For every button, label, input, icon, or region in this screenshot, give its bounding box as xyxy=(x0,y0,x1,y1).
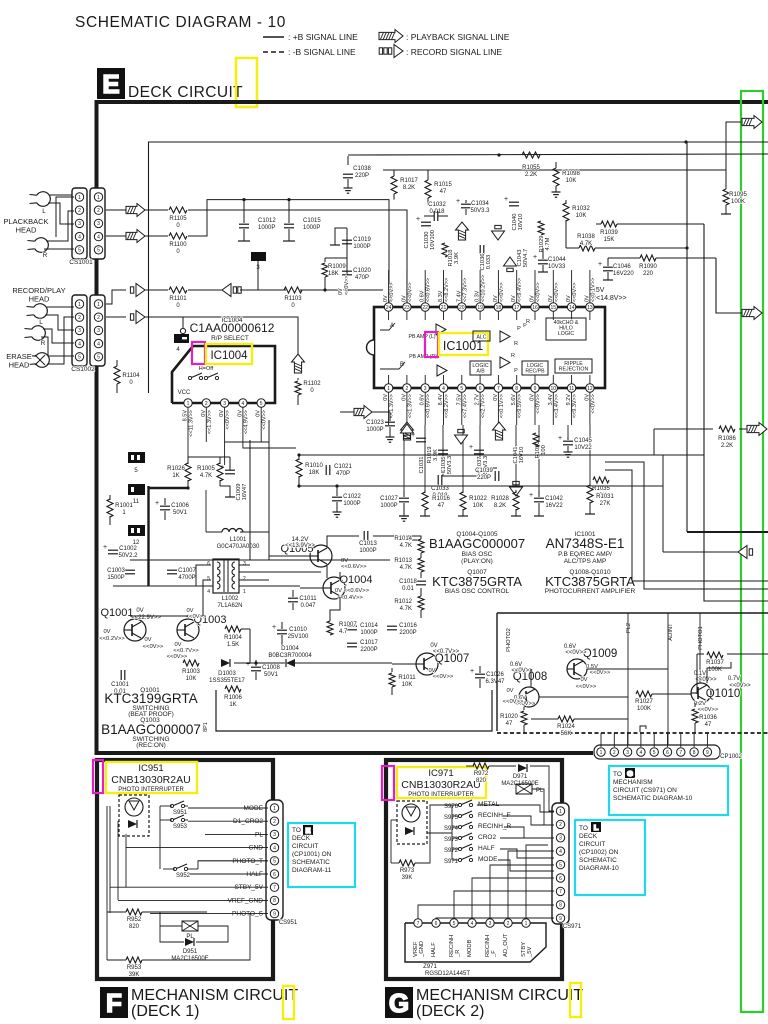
svg-text:3: 3 xyxy=(243,561,246,567)
svg-text:3: 3 xyxy=(559,836,562,842)
resistor R1024 xyxy=(558,716,574,722)
svg-text:<<0V>>: <<0V>> xyxy=(433,674,454,680)
svg-text:C1046: C1046 xyxy=(613,264,631,270)
IC1001 pin stubs top xyxy=(388,270,390,303)
svg-text:7: 7 xyxy=(559,889,562,895)
svg-text:PL: PL xyxy=(186,934,194,940)
IC1001 40kCHO box xyxy=(546,318,586,340)
svg-text:C1003: C1003 xyxy=(107,568,125,574)
wire right verticals xyxy=(653,429,655,455)
svg-text:R1027: R1027 xyxy=(635,699,653,705)
wire right net low xyxy=(605,470,768,581)
capacitor C1018 xyxy=(416,580,426,582)
svg-text:R973: R973 xyxy=(400,868,415,874)
connector CS1002 right column xyxy=(90,295,105,366)
svg-text:<<13.9V>>: <<13.9V>> xyxy=(285,543,315,549)
svg-text:2: 2 xyxy=(78,208,81,214)
svg-text:8.2K: 8.2K xyxy=(403,185,415,191)
connector CS1001 right column xyxy=(90,188,105,259)
svg-text:0V: 0V xyxy=(136,608,143,614)
wire erase line xyxy=(106,316,126,318)
diode D971 xyxy=(518,764,527,772)
svg-text:RECINH_F: RECINH_F xyxy=(478,812,511,819)
svg-text:IC1004: IC1004 xyxy=(210,350,248,362)
svg-text:4: 4 xyxy=(242,401,245,407)
svg-text:R1024: R1024 xyxy=(557,724,575,730)
svg-text:220: 220 xyxy=(643,271,654,277)
svg-text:C1001: C1001 xyxy=(111,682,129,688)
section G icon xyxy=(385,987,413,1018)
resistor R1020 xyxy=(523,707,525,710)
capacitor C1044 xyxy=(538,259,548,261)
resistor R1015 xyxy=(427,170,429,180)
svg-text:CS1001: CS1001 xyxy=(69,259,93,266)
svg-text:HALF: HALF xyxy=(431,942,437,957)
svg-text:C1031: C1031 xyxy=(419,456,425,473)
capacitor C1002 xyxy=(108,549,118,551)
svg-text:6: 6 xyxy=(435,921,438,927)
terminal bars y516 xyxy=(420,515,430,517)
svg-text:<<9.3V>>: <<9.3V>> xyxy=(572,394,578,418)
svg-text:4.7K: 4.7K xyxy=(580,241,592,247)
svg-text:R: R xyxy=(514,341,518,347)
transistor IC1004 body xyxy=(172,346,275,403)
record/play head R xyxy=(32,326,46,341)
svg-text:<<10.2V>>: <<10.2V>> xyxy=(481,275,487,302)
svg-text:1: 1 xyxy=(600,750,603,756)
svg-text:D951: D951 xyxy=(183,949,198,955)
svg-text:PHOTO_S: PHOTO_S xyxy=(232,911,264,918)
svg-text:47: 47 xyxy=(438,503,445,509)
op-amp U IC1001 body xyxy=(374,307,605,388)
svg-text:220P: 220P xyxy=(477,475,491,481)
legend record arrow xyxy=(379,45,403,58)
svg-text:18: 18 xyxy=(496,305,502,311)
resistor R1090 xyxy=(640,255,656,261)
test point 5 xyxy=(128,452,145,463)
svg-text:820: 820 xyxy=(476,778,487,784)
photo interrupter symbol G xyxy=(397,801,427,844)
svg-text:DIAGRAM-11: DIAGRAM-11 xyxy=(292,867,332,874)
svg-text:C1016: C1016 xyxy=(399,623,417,629)
svg-text:5: 5 xyxy=(653,750,656,756)
svg-text:0: 0 xyxy=(176,249,180,255)
svg-text:0: 0 xyxy=(176,303,180,309)
wire record to ic xyxy=(300,289,383,291)
resistor R1017 xyxy=(393,170,395,176)
svg-text:10K: 10K xyxy=(402,682,413,688)
resistor R1007b xyxy=(327,621,333,635)
capacitor C1021 xyxy=(325,465,327,475)
svg-text:2: 2 xyxy=(273,819,276,825)
IC1001 bottom pin row xyxy=(384,384,392,392)
svg-text:3: 3 xyxy=(97,328,100,334)
svg-text:C1019: C1019 xyxy=(353,237,371,243)
svg-text:<<8.2V>>: <<8.2V>> xyxy=(444,394,450,418)
IC1001 top pin row xyxy=(384,303,392,311)
svg-text:22: 22 xyxy=(422,305,428,311)
svg-text:C1014: C1014 xyxy=(360,623,378,629)
svg-text:G0C470JA0030: G0C470JA0030 xyxy=(217,544,260,550)
svg-text:R1009: R1009 xyxy=(328,264,346,270)
svg-text:R: R xyxy=(526,319,530,325)
svg-text:PHOTO1: PHOTO1 xyxy=(698,626,704,650)
svg-text:2: 2 xyxy=(205,401,208,407)
svg-text:D1004: D1004 xyxy=(281,646,299,652)
svg-text:50V1: 50V1 xyxy=(264,672,279,678)
svg-text:R953: R953 xyxy=(127,965,142,971)
playback arrow 1 xyxy=(126,204,145,217)
capacitor C1003 xyxy=(125,569,135,571)
mechanism circuit deck2 frame xyxy=(386,760,562,979)
svg-text:REJECTION: REJECTION xyxy=(559,367,589,373)
capacitor C1022 xyxy=(332,496,342,498)
resistor R1006 xyxy=(225,686,241,692)
wire q area vertical 1 xyxy=(249,440,251,560)
svg-text:4: 4 xyxy=(559,849,562,855)
svg-text:C1007: C1007 xyxy=(178,568,196,574)
svg-text:R1005: R1005 xyxy=(197,466,215,472)
svg-text:<<0V>>: <<0V>> xyxy=(167,654,188,660)
svg-text:8.2K: 8.2K xyxy=(494,503,506,509)
G switch left bus xyxy=(451,805,453,860)
wire transformer left xyxy=(196,565,211,586)
svg-text:P: P xyxy=(514,368,518,374)
svg-text:<<3.4V>>: <<3.4V>> xyxy=(554,394,560,418)
wire cp1002 stubs xyxy=(600,733,602,747)
deck circuit frame left edge xyxy=(95,100,99,755)
svg-text:3: 3 xyxy=(223,401,226,407)
svg-text:<<0V>>: <<0V>> xyxy=(186,614,207,620)
svg-text:C1013: C1013 xyxy=(359,541,377,547)
connector CP1002 xyxy=(594,745,720,759)
transistor Q1010 xyxy=(691,683,711,703)
svg-text:<<0V>>: <<0V>> xyxy=(536,394,542,414)
svg-text:+: + xyxy=(558,435,562,442)
diode D1003 xyxy=(221,659,230,667)
svg-text:5: 5 xyxy=(78,248,81,254)
svg-text:9: 9 xyxy=(273,911,276,917)
svg-text:<<2.7V>>: <<2.7V>> xyxy=(481,394,487,418)
resistor R1005 xyxy=(219,457,221,464)
svg-text:PL2: PL2 xyxy=(626,623,632,633)
svg-text:DECK: DECK xyxy=(292,835,311,842)
resistor R1036 xyxy=(694,703,696,707)
resistor R1012 xyxy=(418,596,424,610)
connector CS971 xyxy=(552,803,569,924)
svg-text:4: 4 xyxy=(78,234,81,240)
yellow highlight IC951 label xyxy=(106,762,197,793)
svg-text:2: 2 xyxy=(243,576,246,582)
svg-text:5: 5 xyxy=(97,248,100,254)
svg-text:B1AAGC000007: B1AAGC000007 xyxy=(429,536,525,551)
capacitor C1034 xyxy=(461,203,471,205)
rotated res R1029 xyxy=(538,221,544,235)
svg-text:<<0.2V>>: <<0.2V>> xyxy=(99,636,125,642)
photo box inner verticals xyxy=(627,613,629,745)
capacitor C1016 xyxy=(387,625,397,627)
svg-text:820: 820 xyxy=(129,924,140,930)
svg-text:2: 2 xyxy=(507,921,510,927)
resistor R973 xyxy=(399,860,415,866)
svg-text:R1095: R1095 xyxy=(729,192,747,198)
magenta highlight IC1001 xyxy=(425,332,438,357)
svg-text:C1AA00000612: C1AA00000612 xyxy=(190,321,275,335)
wire long vertical x686 xyxy=(686,142,688,532)
svg-text:ALC: ALC xyxy=(476,335,486,341)
svg-text:1000P: 1000P xyxy=(303,225,320,231)
svg-text:MODB: MODB xyxy=(467,939,473,957)
svg-text:C1038: C1038 xyxy=(353,166,371,172)
svg-text:6: 6 xyxy=(479,386,482,392)
svg-text:MODE: MODE xyxy=(478,856,498,863)
playback head R xyxy=(35,238,49,253)
svg-text:_F: _F xyxy=(491,950,497,958)
svg-text:<<0.6V>>: <<0.6V>> xyxy=(426,278,432,302)
svg-text:0V: 0V xyxy=(103,629,110,635)
svg-text:HALF: HALF xyxy=(246,871,263,878)
svg-text:R1036: R1036 xyxy=(699,715,717,721)
svg-text:1000P: 1000P xyxy=(353,244,370,250)
svg-text:220P: 220P xyxy=(355,173,369,179)
resistor R1026 xyxy=(187,457,189,464)
diode D1004 xyxy=(286,659,295,667)
svg-text:+: + xyxy=(470,668,474,675)
svg-text:C1017: C1017 xyxy=(360,640,378,646)
transistor Q1008 xyxy=(519,687,539,707)
svg-text:8P1: 8P1 xyxy=(203,722,209,732)
rotated cap C1036 xyxy=(479,245,481,255)
G R973 wires xyxy=(391,862,399,864)
svg-text:+: + xyxy=(529,492,533,499)
resistor R1103 xyxy=(284,287,302,293)
svg-text:R1105: R1105 xyxy=(169,216,187,222)
deck circuit frame top edge xyxy=(95,100,768,104)
svg-text:4: 4 xyxy=(97,341,100,347)
svg-text:6: 6 xyxy=(559,876,562,882)
resistor R1028 xyxy=(515,490,517,493)
svg-text:R1031: R1031 xyxy=(596,494,614,500)
svg-text:4: 4 xyxy=(640,750,643,756)
svg-text:23: 23 xyxy=(404,305,410,311)
capacitor C1010 xyxy=(277,629,287,631)
svg-text:4.7M: 4.7M xyxy=(545,237,551,250)
svg-text:8: 8 xyxy=(273,898,276,904)
svg-text:0V: 0V xyxy=(506,688,513,694)
wire playback L line xyxy=(106,209,126,211)
svg-text:AD_OUT: AD_OUT xyxy=(503,933,509,957)
svg-text:CS1002: CS1002 xyxy=(71,366,95,373)
svg-text:B1AAGC000007: B1AAGC000007 xyxy=(101,722,201,737)
svg-text:(CP1002) ON: (CP1002) ON xyxy=(579,849,619,856)
resistor R1004 xyxy=(225,626,241,632)
svg-text:H=Off: H=Off xyxy=(199,366,214,372)
svg-text:(DECK 1): (DECK 1) xyxy=(131,1003,199,1020)
wire R1014 net xyxy=(399,539,417,541)
diode D951 xyxy=(185,938,194,946)
svg-text:27K: 27K xyxy=(600,501,611,507)
svg-text:<<0V>>: <<0V>> xyxy=(695,677,717,683)
svg-text:CNB13030R2AU: CNB13030R2AU xyxy=(111,774,190,786)
bias osc outline box xyxy=(216,690,492,731)
F bottom wires xyxy=(107,911,126,913)
svg-text:3: 3 xyxy=(273,832,276,838)
resistor R1039 xyxy=(601,221,617,227)
transistor Q1003 xyxy=(177,619,199,641)
svg-text:1: 1 xyxy=(273,806,276,812)
svg-text:R1020: R1020 xyxy=(500,714,518,720)
IC Z971 xyxy=(405,923,546,962)
svg-text:STBY_5V: STBY_5V xyxy=(234,884,263,891)
svg-text:4: 4 xyxy=(471,921,474,927)
yellow highlight IC1001 xyxy=(439,333,488,355)
erase head xyxy=(36,353,50,368)
svg-text:470P: 470P xyxy=(355,275,369,281)
resistor R1105 xyxy=(169,207,187,213)
capacitor C1008 xyxy=(251,666,261,668)
transistor Q1001 xyxy=(124,619,146,641)
svg-text:<<7.3V>>: <<7.3V>> xyxy=(462,278,468,302)
svg-text:4: 4 xyxy=(78,341,81,347)
svg-text:R1103: R1103 xyxy=(284,296,302,302)
svg-text:20: 20 xyxy=(459,305,465,311)
svg-text:1000P: 1000P xyxy=(258,225,275,231)
capacitor C1012 xyxy=(243,200,245,223)
svg-text:R1012: R1012 xyxy=(394,599,412,605)
svg-text:11: 11 xyxy=(569,386,574,392)
svg-text:C1006: C1006 xyxy=(171,503,189,509)
svg-text:Q1004: Q1004 xyxy=(339,574,372,586)
svg-text:L: L xyxy=(39,319,43,326)
svg-text:CIRCUIT: CIRCUIT xyxy=(292,843,318,850)
IC1001 PB AMP L triangle xyxy=(436,324,446,335)
svg-text:<<0.7V>>: <<0.7V>> xyxy=(433,649,460,655)
capacitor C1017 xyxy=(347,642,357,644)
svg-text:50V2.2: 50V2.2 xyxy=(118,553,138,559)
svg-text:R1015: R1015 xyxy=(434,182,452,188)
svg-text:C1042: C1042 xyxy=(545,496,563,502)
svg-text:1: 1 xyxy=(187,401,190,407)
svg-text:: PLAYBACK SIGNAL LINE: : PLAYBACK SIGNAL LINE xyxy=(406,32,510,42)
svg-text:0V: 0V xyxy=(144,637,151,643)
svg-text:100K: 100K xyxy=(731,199,745,205)
wire r1039 net xyxy=(596,223,601,225)
svg-text:CNB13030R2AU: CNB13030R2AU xyxy=(401,779,480,791)
svg-text:TO: TO xyxy=(579,825,588,832)
wire d1004 net xyxy=(295,662,392,664)
svg-text:25V100: 25V100 xyxy=(288,634,309,640)
photo interrupter symbol F xyxy=(119,795,149,836)
svg-text:<<0V>>: <<0V>> xyxy=(576,684,597,690)
svg-text:(REC:ON): (REC:ON) xyxy=(136,742,166,749)
svg-text:+: + xyxy=(469,444,473,451)
IC1004 pin row xyxy=(184,399,192,407)
svg-text:4.7K: 4.7K xyxy=(200,473,212,479)
svg-text:C1018: C1018 xyxy=(399,579,417,585)
svg-text:P: P xyxy=(517,326,521,332)
svg-text:<<0.1V>>: <<0.1V>> xyxy=(590,278,596,302)
resistor R1101 xyxy=(169,287,187,293)
svg-text:: +B SIGNAL LINE: : +B SIGNAL LINE xyxy=(288,32,358,42)
svg-text:1000P: 1000P xyxy=(359,548,376,554)
svg-text:E: E xyxy=(305,826,310,835)
svg-text:<<1.3V>>: <<1.3V>> xyxy=(407,394,413,418)
wire mid net 1 xyxy=(147,486,149,586)
svg-text:2.2K: 2.2K xyxy=(525,172,537,178)
svg-text:<<0V>>: <<0V>> xyxy=(225,410,231,430)
svg-text:6: 6 xyxy=(273,872,276,878)
yellow highlight IC1004 xyxy=(206,344,252,364)
svg-text:16V10: 16V10 xyxy=(518,214,524,231)
svg-text:R: R xyxy=(511,353,515,359)
svg-text:4.7K: 4.7K xyxy=(400,543,412,549)
svg-text:1: 1 xyxy=(525,921,528,927)
svg-text:KTC3875GRTA: KTC3875GRTA xyxy=(545,574,635,589)
svg-text:_5V: _5V xyxy=(527,947,533,958)
svg-text:SCHEMATIC: SCHEMATIC xyxy=(292,859,330,866)
svg-text:C1012: C1012 xyxy=(258,218,276,224)
capacitor C1033 xyxy=(437,475,439,485)
svg-text:16V220: 16V220 xyxy=(613,271,634,277)
svg-text:1000P: 1000P xyxy=(360,630,377,636)
svg-text:BIAS OSC: BIAS OSC xyxy=(462,551,493,558)
svg-text:<<0V>>: <<0V>> xyxy=(503,699,524,705)
IC1004 pin stubs xyxy=(187,407,189,442)
svg-text:18K: 18K xyxy=(309,470,320,476)
svg-text:10K: 10K xyxy=(566,178,577,184)
svg-text:CRO2: CRO2 xyxy=(478,834,496,841)
svg-text:MECHANISM CIRCUIT: MECHANISM CIRCUIT xyxy=(131,987,298,1004)
record arrow up 2 xyxy=(504,257,517,272)
svg-text:1: 1 xyxy=(78,302,81,308)
playback arrow right top xyxy=(742,116,762,129)
svg-text:C1023: C1023 xyxy=(366,420,384,426)
svg-text:3.9K: 3.9K xyxy=(454,252,460,264)
svg-text:47: 47 xyxy=(506,721,513,727)
svg-text:0: 0 xyxy=(310,388,314,394)
svg-text:1: 1 xyxy=(78,195,81,201)
wire h486 xyxy=(299,485,663,487)
svg-text:13: 13 xyxy=(587,305,593,311)
svg-text:C1008: C1008 xyxy=(262,665,280,671)
svg-text:39K: 39K xyxy=(129,972,140,978)
svg-text:R1098: R1098 xyxy=(562,171,580,177)
svg-text:2: 2 xyxy=(78,315,81,321)
svg-text:LOGIC: LOGIC xyxy=(558,331,574,337)
capacitor C1039 xyxy=(494,471,496,481)
svg-text:<<0V>>: <<0V>> xyxy=(499,282,505,302)
svg-text:C1027: C1027 xyxy=(380,496,398,502)
record arrow up C1023 xyxy=(401,424,414,439)
capacitor C1032 xyxy=(433,211,435,221)
svg-text:7: 7 xyxy=(273,885,276,891)
svg-text:4: 4 xyxy=(273,845,276,851)
legend +B signal line xyxy=(263,36,284,38)
capacitor C1026 xyxy=(475,673,485,675)
svg-text:PHOTO2: PHOTO2 xyxy=(506,628,512,652)
svg-text:10: 10 xyxy=(551,386,557,392)
svg-text:<<0.6V>>: <<0.6V>> xyxy=(341,564,367,570)
connector CS1002 left column xyxy=(72,295,87,366)
svg-text:+: + xyxy=(504,196,508,203)
mechanism circuit deck1 frame xyxy=(97,760,273,979)
wire pb arrow to C1023 xyxy=(340,411,354,413)
svg-text:REC/PB: REC/PB xyxy=(525,369,545,375)
svg-text:5: 5 xyxy=(273,859,276,865)
svg-text:3: 3 xyxy=(78,328,81,334)
resistor R952 xyxy=(126,909,142,915)
svg-text:ALC/TPS AMP: ALC/TPS AMP xyxy=(564,558,607,565)
